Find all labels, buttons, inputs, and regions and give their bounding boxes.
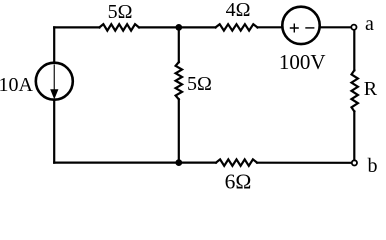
resistor 5ohm top-left bbox=[99, 24, 139, 30]
resistor R right branch bbox=[352, 70, 358, 111]
plus sign inside V1 bbox=[290, 24, 299, 33]
resistor 6ohm bottom bbox=[216, 159, 257, 165]
wire right rail lower (R to terminal b) bbox=[353, 111, 355, 160]
svg-text:5Ω: 5Ω bbox=[187, 73, 212, 95]
wire 4ohm to terminal a (passes under source V1) bbox=[258, 26, 352, 28]
svg-text:10A: 10A bbox=[0, 74, 34, 96]
wire top segment corner to 5ohm bbox=[54, 26, 99, 28]
svg-text:100V: 100V bbox=[279, 50, 326, 74]
svg-text:b: b bbox=[368, 155, 378, 177]
minus sign inside V1 bbox=[305, 27, 314, 29]
svg-text:4Ω: 4Ω bbox=[226, 0, 251, 21]
svg-text:a: a bbox=[365, 13, 374, 35]
resistor 5ohm middle branch bbox=[176, 62, 182, 99]
svg-text:R: R bbox=[364, 78, 378, 100]
wire right rail upper (terminal a to resistor R) bbox=[353, 30, 355, 70]
wire 5ohm to 4ohm through top node bbox=[139, 26, 216, 28]
wire middle rail lower (5ohm middle to bottom node) bbox=[178, 99, 180, 162]
junction node top-middle bbox=[175, 24, 182, 31]
svg-text:6Ω: 6Ω bbox=[225, 169, 252, 193]
junction node bottom-middle bbox=[175, 159, 182, 166]
current source I1 10A circle bbox=[36, 63, 73, 100]
resistor 4ohm top bbox=[216, 24, 258, 30]
current source arrow shaft bbox=[53, 64, 55, 91]
wire 6ohm to terminal b bbox=[257, 162, 351, 164]
terminal a open circle bbox=[351, 25, 356, 30]
terminal b open circle bbox=[352, 160, 357, 165]
wire middle rail upper (top node to 5ohm middle) bbox=[178, 27, 180, 62]
wire left rail (top corner to bottom corner) bbox=[53, 27, 55, 162]
svg-text:5Ω: 5Ω bbox=[108, 1, 133, 23]
wire bottom segment corner to 6ohm bbox=[54, 162, 216, 164]
current source arrowhead pointing down bbox=[50, 89, 58, 99]
voltage source V1 100V circle bbox=[282, 7, 319, 44]
